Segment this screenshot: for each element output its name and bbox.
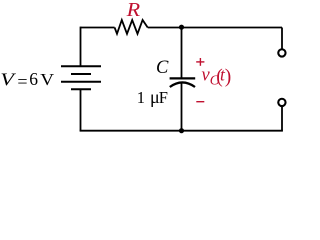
svg-text:6: 6 <box>29 69 38 89</box>
svg-text:): ) <box>225 67 232 88</box>
svg-text:R: R <box>126 0 141 21</box>
svg-text:C: C <box>156 58 169 78</box>
svg-text:F: F <box>159 88 168 107</box>
svg-text:1: 1 <box>137 88 145 107</box>
svg-text:=: = <box>17 71 27 91</box>
svg-text:V: V <box>40 70 55 89</box>
